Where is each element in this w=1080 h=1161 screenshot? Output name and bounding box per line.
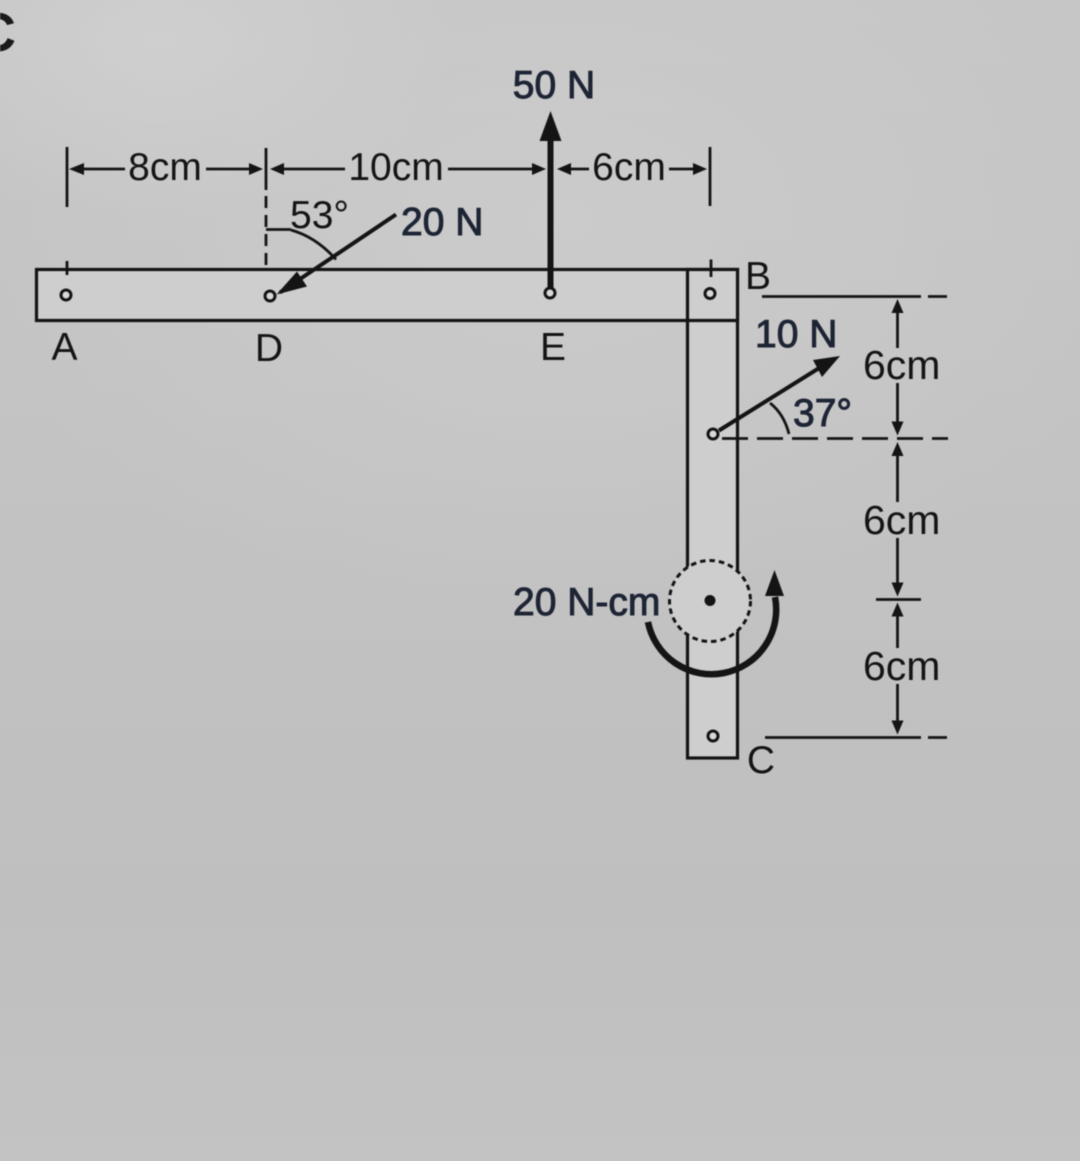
vertical dimension 6cm (bottom): down arrowhead (892, 721, 904, 735)
dimension extension line at A (66, 147, 69, 207)
vertical dimension 6cm (middle): upper segment (896, 454, 899, 502)
vertical beam BC (688, 270, 738, 759)
svg-text:20 N-cm: 20 N-cm (513, 581, 660, 624)
moment arc arrow (648, 597, 776, 674)
vertical dimension 6cm (bottom): upper segment (896, 614, 899, 648)
dimension line 6cm top: right segment (669, 168, 695, 171)
hole C (708, 731, 718, 741)
reference line at C level (765, 736, 947, 739)
vertical dimension 6cm (bottom): up arrowhead (892, 603, 904, 617)
svg-text:50 N: 50 N (513, 64, 595, 107)
svg-text:A: A (51, 326, 77, 369)
tick A on beam edge (66, 261, 69, 275)
dimension extension line at D (solid part) (265, 148, 268, 190)
hole B (705, 289, 715, 299)
svg-text:20 N: 20 N (401, 201, 483, 244)
vertical dimension 6cm (bottom): lower segment (896, 684, 899, 723)
moment arc arrowhead (765, 570, 784, 596)
reference line at B level (762, 295, 947, 298)
hole A (61, 290, 71, 300)
force arrow 50 N shaft (548, 136, 554, 290)
svg-text:E: E (540, 326, 566, 369)
svg-text:C: C (0, 1, 16, 63)
svg-text:10cm: 10cm (348, 146, 443, 189)
dimension line 10cm: left segment (283, 168, 345, 171)
dimension line 8cm: right segment (206, 168, 252, 171)
angle 37 deg arc (770, 403, 789, 434)
dimension extension line at D (dashed part) (265, 196, 268, 272)
dimension extension tick right of 6cm (709, 147, 712, 206)
tick B on beam edge (710, 260, 713, 278)
angle 53 deg horizontal reference line (266, 228, 291, 231)
dimension line 8cm: left arrowhead (69, 163, 84, 175)
svg-text:53°: 53° (290, 194, 349, 237)
vertical dimension 6cm (top): lower segment (896, 383, 899, 424)
svg-text:D: D (255, 327, 283, 370)
vertical dimension 6cm (middle): down arrowhead (892, 583, 904, 597)
svg-text:6cm: 6cm (863, 342, 940, 388)
force arrow 20 N head (277, 272, 308, 295)
vertical dimension 6cm (top): up arrowhead (892, 299, 904, 313)
dimension line 8cm: left segment (82, 168, 125, 171)
hole at 10 N attachment (708, 429, 718, 439)
svg-text:37°: 37° (793, 392, 852, 435)
angle 53 deg arc (291, 230, 336, 260)
svg-text:6cm: 6cm (863, 643, 940, 689)
dimension line 10cm: left arrowhead (270, 163, 284, 175)
moment circle (dashed) (670, 561, 751, 642)
svg-text:8cm: 8cm (128, 146, 202, 189)
force arrow 10 N shaft (719, 365, 824, 431)
tick at moment level on dimension line (876, 598, 921, 601)
dashed level line at 10 N hole (722, 437, 948, 440)
svg-text:10 N: 10 N (755, 313, 837, 356)
dimension line 8cm: right arrowhead (249, 163, 263, 175)
hole E (545, 288, 555, 298)
moment center dot (705, 595, 716, 606)
vertical dimension 6cm (middle): lower segment (896, 538, 899, 585)
horizontal beam ABE (37, 270, 738, 321)
dimension line 6cm top: left segment (570, 168, 589, 171)
svg-text:6cm: 6cm (592, 146, 666, 189)
dimension line 6cm top: left arrowhead (557, 163, 571, 175)
force arrow 10 N head (813, 356, 840, 377)
svg-text:B: B (745, 255, 771, 298)
svg-text:C: C (747, 739, 775, 782)
dimension line 6cm top: right arrowhead (693, 163, 707, 175)
dimension line 10cm: right segment (448, 168, 534, 171)
vertical dimension 6cm (top): upper segment (896, 311, 899, 348)
vertical dimension 6cm (top): down arrowhead (892, 422, 904, 436)
force arrow 50 N head (540, 111, 562, 141)
force arrow 20 N shaft (280, 215, 396, 293)
dimension line 10cm: right arrowhead (532, 163, 546, 175)
svg-text:6cm: 6cm (863, 497, 940, 543)
vertical dimension 6cm (middle): up arrowhead (892, 442, 904, 456)
hole D (265, 291, 275, 301)
wire: beam bottom edge through vertical beam (686, 319, 738, 322)
